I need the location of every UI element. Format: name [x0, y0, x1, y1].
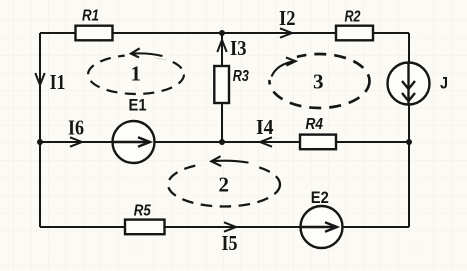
- node right middle: [406, 139, 412, 145]
- svg-text:E1: E1: [129, 96, 147, 115]
- J current direction arrows: [407, 63, 409, 105]
- resistor R5: [125, 220, 165, 235]
- svg-text:I6: I6: [68, 116, 84, 140]
- resistor R4: [300, 135, 336, 150]
- voltage source E1: [113, 121, 155, 163]
- svg-text:R3: R3: [233, 68, 249, 85]
- svg-text:R2: R2: [345, 9, 361, 26]
- svg-text:1: 1: [131, 62, 142, 86]
- node top of center branch: [219, 30, 225, 36]
- voltage source E2: [301, 206, 343, 248]
- svg-text:2: 2: [219, 173, 230, 197]
- wire center branch: [221, 33, 223, 142]
- current arrow I4: [260, 137, 272, 146]
- loop 1 contour: [88, 48, 184, 94]
- svg-text:I4: I4: [256, 115, 274, 139]
- resistor R1: [76, 26, 113, 41]
- svg-text:I5: I5: [222, 231, 238, 255]
- svg-text:I1: I1: [50, 70, 66, 94]
- loop 1 direction arrow: [126, 54, 167, 58]
- resistor R2: [336, 26, 373, 41]
- svg-text:E2: E2: [311, 188, 329, 207]
- svg-text:R4: R4: [306, 116, 324, 133]
- loop 3 contour: [270, 54, 370, 108]
- resistor R3: [214, 66, 229, 103]
- loop 2 contour: [168, 156, 280, 206]
- svg-text:I3: I3: [230, 36, 247, 60]
- current arrow I3: [217, 40, 226, 52]
- wire bottom: [40, 226, 409, 228]
- loop 3 direction arrow: [270, 58, 298, 81]
- current arrow I1: [35, 73, 44, 85]
- svg-text:R5: R5: [134, 203, 152, 220]
- wire top: [40, 32, 409, 34]
- node bottom of center branch: [219, 139, 225, 145]
- current source J: [388, 63, 430, 105]
- node left middle: [37, 139, 43, 145]
- E1 emf arrow: [113, 141, 151, 143]
- current arrow I6: [70, 137, 82, 146]
- svg-text:J: J: [440, 73, 448, 92]
- loop 2 direction arrow: [203, 162, 255, 166]
- wire right: [408, 33, 410, 227]
- current arrow I2: [280, 28, 292, 37]
- wire middle horizontal: [40, 141, 409, 143]
- svg-text:3: 3: [313, 70, 324, 94]
- svg-text:I2: I2: [279, 6, 296, 30]
- current arrow I5: [224, 222, 236, 231]
- E2 emf arrow: [301, 226, 338, 228]
- wire left: [39, 33, 41, 227]
- svg-text:R1: R1: [82, 7, 99, 24]
